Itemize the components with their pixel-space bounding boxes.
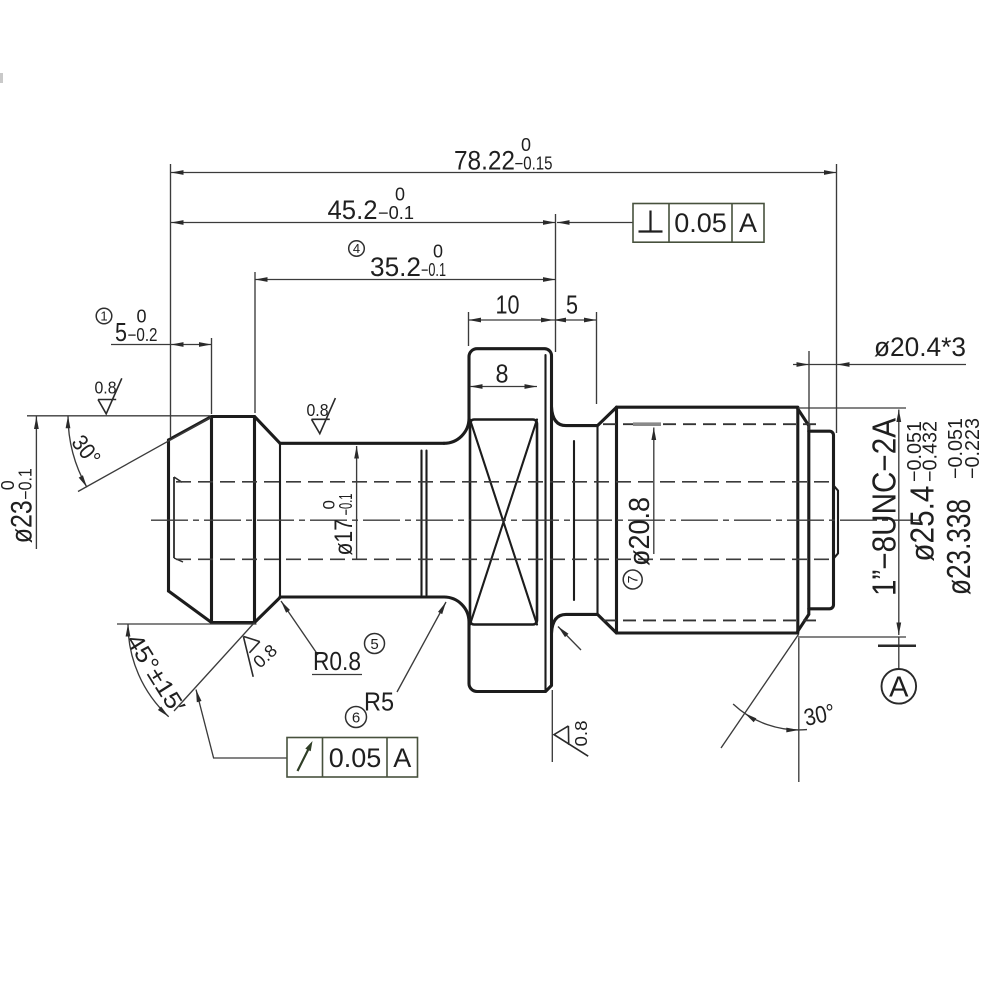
svg-text:−0.432: −0.432	[920, 421, 942, 482]
svg-text:5: 5	[115, 317, 127, 347]
svg-text:0: 0	[0, 480, 18, 490]
svg-text:−0.223: −0.223	[962, 418, 984, 479]
svg-text:−0.2: −0.2	[128, 325, 158, 345]
svg-text:0.05: 0.05	[329, 743, 382, 773]
svg-text:1: 1	[100, 309, 107, 324]
svg-text:0: 0	[320, 500, 339, 509]
svg-text:0: 0	[433, 242, 443, 262]
svg-text:ø17: ø17	[330, 519, 358, 556]
svg-text:−0.1: −0.1	[421, 260, 446, 280]
svg-text:R5: R5	[364, 687, 394, 717]
svg-text:0: 0	[521, 135, 531, 155]
svg-text:0: 0	[137, 307, 147, 327]
svg-text:ø23.338: ø23.338	[940, 499, 977, 595]
svg-text:78.22: 78.22	[454, 146, 515, 176]
svg-text:10: 10	[496, 290, 520, 320]
svg-text:6: 6	[352, 709, 360, 726]
svg-text:0.8: 0.8	[307, 400, 329, 420]
svg-text:ø20.8: ø20.8	[624, 497, 656, 566]
svg-text:4: 4	[353, 241, 360, 256]
svg-text:5: 5	[370, 636, 378, 653]
svg-text:−0.1: −0.1	[16, 468, 36, 500]
svg-text:ø25.4: ø25.4	[904, 486, 941, 562]
svg-text:ø23: ø23	[6, 500, 39, 543]
svg-text:ø20.4*3: ø20.4*3	[874, 332, 966, 362]
svg-text:0.05: 0.05	[674, 208, 727, 238]
svg-text:0: 0	[395, 185, 405, 205]
svg-text:−0.1: −0.1	[336, 494, 356, 516]
svg-text:A: A	[739, 208, 757, 238]
svg-text:0.8: 0.8	[95, 378, 117, 398]
svg-text:8: 8	[496, 359, 509, 389]
svg-text:1”−8UNC−2A: 1”−8UNC−2A	[866, 418, 903, 596]
svg-text:R0.8: R0.8	[313, 646, 361, 676]
svg-text:0.8: 0.8	[571, 721, 591, 747]
svg-text:−0.15: −0.15	[515, 154, 553, 174]
svg-text:−0.1: −0.1	[378, 203, 414, 223]
svg-text:35.2: 35.2	[370, 252, 421, 282]
svg-text:45.2: 45.2	[328, 195, 378, 225]
svg-text:A: A	[889, 672, 909, 704]
svg-text:A: A	[393, 743, 411, 773]
svg-text:7: 7	[625, 575, 641, 583]
svg-text:5: 5	[566, 290, 578, 320]
